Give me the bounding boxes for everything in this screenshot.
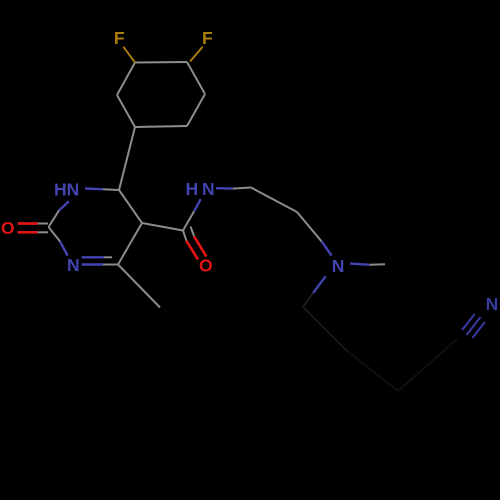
- svg-text:N: N: [332, 256, 345, 276]
- svg-text:O: O: [199, 256, 213, 276]
- svg-text:N: N: [67, 255, 80, 275]
- svg-text:N: N: [486, 294, 499, 314]
- svg-text:F: F: [202, 28, 213, 48]
- svg-text:F: F: [114, 28, 125, 48]
- svg-text:HN: HN: [54, 180, 79, 200]
- svg-text:O: O: [1, 218, 15, 238]
- svg-text:H: H: [186, 179, 199, 199]
- svg-text:N: N: [202, 179, 215, 199]
